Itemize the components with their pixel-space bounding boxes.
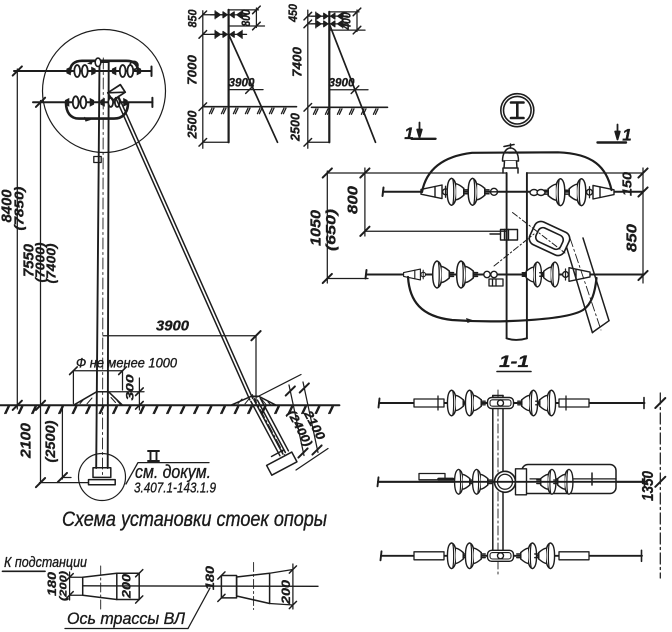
node I bottom-right insulator 1 — [522, 262, 541, 287]
svg-text:1: 1 — [404, 124, 413, 143]
1-1 row1 center plate — [488, 398, 514, 409]
svg-text:300: 300 — [125, 373, 137, 400]
crossarm member (plan, vertical) — [493, 396, 503, 561]
right footing (anchor plan) — [221, 573, 269, 603]
section mark 1 (left) — [412, 123, 436, 139]
detail circle II callout at pole base — [79, 454, 126, 501]
pole footing flange — [93, 468, 111, 478]
mini1 pole — [228, 10, 230, 142]
insulator string top-left (elevation) — [66, 65, 95, 77]
svg-text:850: 850 — [624, 223, 641, 252]
svg-text:К подстанции: К подстанции — [4, 554, 88, 571]
leader line to detail II — [126, 463, 209, 484]
ring at right end of upper loop — [130, 61, 138, 69]
node I top wire — [383, 188, 644, 197]
guy attachment bracket at pole head — [108, 85, 125, 101]
svg-text:7400: 7400 — [290, 46, 305, 77]
mini1 left dim line — [199, 11, 223, 149]
node I top jumper loop — [422, 152, 612, 192]
pole base plate — [89, 480, 116, 485]
1-1 row1 left bolt — [437, 396, 439, 410]
1-1 row3 left insulator 1 — [447, 543, 467, 569]
1-1 row1 right bolt — [565, 396, 567, 410]
svg-text:2500: 2500 — [185, 110, 200, 140]
node I hidden rigging lines — [494, 213, 565, 267]
1-1 row3 wire — [381, 551, 643, 560]
ground hatching — [5, 407, 334, 414]
1-1 row1 left insulator 2 — [465, 390, 485, 416]
svg-text:2500: 2500 — [288, 112, 303, 142]
svg-text:400: 400 — [342, 12, 354, 30]
mini1 dim 800 right — [229, 6, 265, 30]
insulator string bottom-right (elevation) — [100, 98, 127, 107]
1-1 row2 bracket — [516, 469, 527, 495]
1-1 row2 wire — [378, 477, 646, 486]
1-1 row1 right insulator 1 — [518, 390, 538, 416]
mini1 top line — [229, 9, 259, 11]
left footing centerlines — [100, 566, 102, 611]
1-1 row1 right sleeve — [559, 399, 589, 407]
mini2 dim 400 right — [329, 8, 365, 34]
svg-text:3900: 3900 — [229, 76, 255, 90]
mini1 bottom line — [203, 141, 229, 143]
svg-text:(2500): (2500) — [43, 420, 58, 463]
node I guy centerline — [570, 238, 601, 330]
guy wire (double line) — [116, 96, 253, 400]
1-1 row3 right insulator 2 — [535, 543, 555, 569]
svg-text:(650): (650) — [323, 209, 339, 251]
1-1 row3 left insulator 2 — [465, 543, 485, 569]
svg-text:(7400): (7400) — [44, 244, 59, 284]
svg-text:2100: 2100 — [18, 422, 35, 459]
earth mound at pole — [74, 392, 123, 405]
dimension 3900 (elevation) — [103, 331, 261, 403]
anchor beam centerline — [252, 395, 287, 460]
1-1 row1 wire — [379, 399, 645, 408]
left footing dim 200 — [136, 570, 143, 604]
mini2 pole — [328, 12, 330, 142]
pole (stand) of the support — [96, 62, 109, 468]
detail circle I callout around pole head — [43, 30, 166, 153]
anchor beam cross tie — [272, 450, 284, 457]
buried anchor beam (double line) — [251, 398, 289, 455]
svg-text:450: 450 — [288, 3, 300, 23]
circled label I — [501, 94, 534, 127]
bottom conductor wire (elevation) — [33, 98, 152, 107]
section mark 1 (right) — [598, 125, 627, 143]
svg-text:(200): (200) — [58, 570, 70, 601]
right footing dim 180 — [218, 572, 225, 602]
mini1 conductors level 2 — [211, 30, 247, 38]
earth mound at anchor — [231, 396, 276, 405]
right footing centerline — [253, 563, 255, 610]
dimension 1050 (650) — [323, 168, 507, 283]
node I bottom jumper loop — [408, 277, 597, 321]
mini2 left dim line — [304, 10, 323, 148]
mini2 top line — [329, 11, 359, 13]
mini2 dim 3900 — [329, 86, 368, 94]
jumper tie bead on pole top — [95, 58, 101, 66]
dimension line 7550 (7000) (7400) — [36, 98, 45, 488]
1-1 row2 right insulator 2 — [554, 469, 573, 494]
svg-text:800: 800 — [345, 185, 362, 214]
insulator string top-right (elevation) — [112, 65, 141, 77]
node I top-left links — [489, 188, 507, 195]
node I guy U-bolt loop — [527, 219, 572, 258]
1-1 pole cross-section circle — [495, 471, 516, 492]
1-1 row3 right sleeve — [559, 552, 589, 560]
mini2 conductors level 2 — [311, 20, 347, 28]
mini1 conductors level 1 — [211, 11, 247, 19]
node I bottom bracket bolts — [489, 279, 503, 286]
svg-text:3900: 3900 — [156, 319, 189, 335]
arrow mark on bottom loop — [466, 318, 474, 323]
left footing dim 180 (200) — [66, 572, 83, 600]
upper jumper loop — [70, 61, 138, 72]
1-1 row3 right insulator 1 — [517, 543, 537, 569]
dimension 800 (node I) — [360, 168, 506, 236]
1-1 dimension 1350 — [655, 393, 665, 578]
arrow mark on lower loop — [84, 117, 91, 122]
axis line of OHL route — [83, 585, 318, 588]
mini2 conductors level 1 — [311, 12, 347, 20]
ground line (elevation) — [0, 404, 339, 406]
insulator string bottom-left (elevation) — [65, 96, 94, 108]
1-1 row2 right insulator 1 — [537, 469, 556, 494]
1-1 row2 left insulator 1 — [455, 469, 474, 494]
1-1 row3 left sleeve — [414, 552, 444, 560]
mini1 dim 3900 — [229, 86, 263, 94]
1-1 row2 left insulator 2 — [473, 469, 492, 494]
node I bottom-right insulator 2 — [540, 262, 559, 287]
svg-text:см. докум.: см. докум. — [135, 462, 211, 482]
band clamp on pole — [94, 157, 101, 163]
node I top-right strain clamp — [587, 185, 614, 199]
svg-text:3.407.1-143.1.9: 3.407.1-143.1.9 — [134, 481, 216, 497]
node I top-left insulator 1 — [447, 178, 468, 205]
node I top-left strain clamp — [421, 185, 448, 199]
dimension 2100 (2400) along anchor — [257, 375, 328, 471]
svg-text:850: 850 — [188, 9, 200, 28]
dimension line 8400 (7850) — [13, 66, 22, 410]
1-1 row3 center plate — [488, 550, 514, 561]
mini2 bottom line — [308, 141, 330, 143]
1-1 row1 left sleeve — [414, 399, 444, 407]
left footing (pole stub plan) — [83, 573, 140, 599]
mini2 guy — [329, 24, 375, 142]
1-1 guy anchor beam (plan) — [522, 465, 616, 494]
lower jumper loop — [66, 103, 128, 119]
node I guy attachment bracket — [490, 230, 518, 241]
datum line at pole bottom — [40, 482, 89, 484]
svg-text:3900: 3900 — [329, 76, 355, 90]
node I bottom-right strain clamp — [563, 268, 590, 282]
svg-text:1-1: 1-1 — [499, 352, 529, 371]
svg-text:(7850): (7850) — [12, 187, 27, 231]
node I bottom-left insulator 1 — [433, 261, 454, 288]
svg-text:1350: 1350 — [640, 471, 657, 501]
node I bottom-right links — [527, 272, 533, 278]
pole centerline — [102, 58, 105, 476]
mini1 guy — [229, 34, 278, 142]
node I bottom wire — [366, 270, 644, 279]
top conductor wire (elevation) — [14, 67, 152, 77]
node I pole — [507, 173, 527, 340]
svg-text:7000: 7000 — [185, 54, 200, 85]
node I bottom-left strain clamp — [404, 269, 426, 280]
svg-text:Ось трассы ВЛ: Ось трассы ВЛ — [67, 610, 186, 628]
svg-text:1: 1 — [622, 126, 631, 145]
arrow mark on upper loop — [87, 60, 94, 64]
svg-text:Схема установки стоек опоры: Схема установки стоек опоры — [62, 508, 327, 531]
crossarm centerline — [497, 390, 499, 574]
node I top-right insulator 1 — [544, 179, 565, 206]
svg-text:180: 180 — [205, 565, 217, 590]
svg-text:Ф не менее 1000: Ф не менее 1000 — [76, 356, 177, 371]
svg-text:800: 800 — [241, 9, 253, 27]
mini1 ground — [204, 106, 297, 108]
dimension 150 (node I right) — [527, 168, 648, 283]
node I top-right insulator 2 — [565, 179, 586, 206]
svg-text:200: 200 — [281, 579, 293, 605]
node I top-left insulator 2 — [468, 178, 489, 205]
node I bottom-left links — [484, 271, 497, 277]
node I bottom-left insulator 2 — [457, 261, 478, 288]
node I guy wire double line — [567, 238, 610, 333]
anchor base plate — [267, 452, 297, 475]
node I pole top pin insulator — [503, 144, 519, 173]
label II — [148, 451, 159, 461]
1-1 row2 left sleeve — [419, 474, 445, 480]
mini2 ground — [312, 106, 388, 108]
node I top-right links — [530, 190, 545, 196]
right footing dim 200 — [270, 564, 297, 609]
1-1 row1 left insulator 1 — [447, 390, 467, 416]
1-1 row1 right insulator 2 — [536, 390, 556, 416]
